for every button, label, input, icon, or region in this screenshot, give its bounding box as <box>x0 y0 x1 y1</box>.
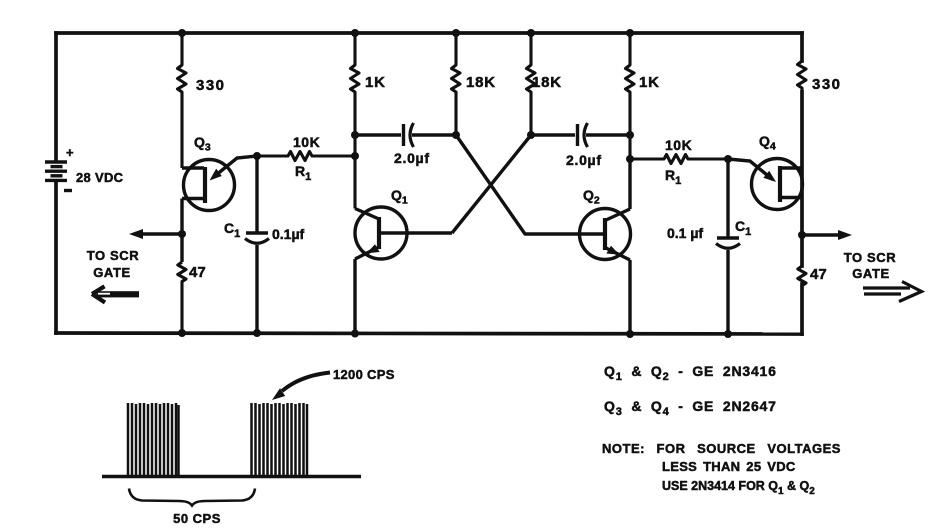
svg-text:Q1 & Q2 - GE 2N3416: Q1 & Q2 - GE 2N3416 <box>604 363 777 383</box>
transistor Q2 <box>580 159 631 334</box>
wire right rail lower <box>800 284 804 334</box>
resistor 18K (right) <box>527 33 536 135</box>
svg-text:LESS THAN 25 VDC: LESS THAN 25 VDC <box>662 459 796 474</box>
svg-text:Q2: Q2 <box>583 187 600 207</box>
svg-text:GATE: GATE <box>852 266 890 281</box>
svg-text:1K: 1K <box>365 74 386 91</box>
svg-text:330: 330 <box>812 76 842 93</box>
svg-text:Q3 & Q4 - GE 2N2647: Q3 & Q4 - GE 2N2647 <box>604 398 777 418</box>
node right output <box>798 231 806 239</box>
svg-text:R1: R1 <box>665 167 681 187</box>
resistor 1K (left) <box>351 33 360 209</box>
capacitor C1 0.1uf (left) <box>245 156 269 333</box>
brace 50 CPS span <box>129 489 255 506</box>
svg-text:C1: C1 <box>735 218 751 238</box>
svg-text:330: 330 <box>196 77 226 94</box>
arrow to SCR gate (right) <box>863 282 922 302</box>
svg-text:47: 47 <box>189 264 206 281</box>
waveform pulse burst 2 <box>252 403 308 477</box>
wire left rail upper <box>54 33 58 160</box>
svg-text:C1: C1 <box>224 220 240 240</box>
waveform pulse burst 1 <box>128 403 179 477</box>
svg-text:18K: 18K <box>466 74 496 91</box>
svg-text:+: + <box>66 145 74 160</box>
wire right rail upper <box>800 33 804 61</box>
svg-text:1K: 1K <box>639 74 660 91</box>
resistor 330 (right) <box>798 61 807 92</box>
node left output <box>178 230 186 238</box>
wire right rail mid <box>800 92 804 266</box>
svg-text:0.1 µf: 0.1 µf <box>667 225 703 241</box>
svg-text:R1: R1 <box>295 163 311 183</box>
svg-text:TO SCR: TO SCR <box>844 250 896 265</box>
wire cross-coupling Q2 base to 18K left <box>456 135 605 234</box>
svg-text:1200 CPS: 1200 CPS <box>333 367 395 382</box>
svg-text:Q1: Q1 <box>391 187 408 207</box>
wire left output arrow <box>141 232 182 235</box>
svg-text:GATE: GATE <box>93 265 131 280</box>
node A (Q3 emitter / R1 / C1) <box>253 152 261 160</box>
svg-text:TO SCR: TO SCR <box>87 248 139 263</box>
svg-text:Q3: Q3 <box>194 134 211 154</box>
resistor R1 10K (right) <box>630 155 728 164</box>
resistor 330 (left) <box>178 33 187 168</box>
svg-text:USE 2N3414 FOR Q1 & Q2: USE 2N3414 FOR Q1 & Q2 <box>662 479 815 497</box>
resistor 47 (right) <box>798 266 806 286</box>
svg-text:10K: 10K <box>665 137 692 153</box>
resistor 47 (left) <box>178 262 186 333</box>
node dots mid <box>351 131 359 139</box>
node dots top rail <box>178 29 186 37</box>
svg-text:0.1µf: 0.1µf <box>272 226 305 242</box>
wire Q3 B1 to output node <box>180 199 183 263</box>
node dots bottom rail <box>178 329 186 337</box>
capacitor 2.0uf (right) <box>531 123 630 147</box>
transistor Q1 <box>355 207 452 334</box>
svg-text:NOTE: FOR SOURCE VOLTAGES: NOTE: FOR SOURCE VOLTAGES <box>602 441 841 456</box>
capacitor 2.0uf (left) <box>355 123 456 147</box>
arrow to 1200 CPS <box>282 373 330 392</box>
waveform baseline <box>102 475 361 478</box>
wire right output arrow <box>802 233 838 236</box>
capacitor C1 0.1uf (right) <box>716 159 740 334</box>
resistor R1 10K (left) <box>257 152 355 161</box>
svg-text:18K: 18K <box>532 74 562 91</box>
svg-text:Q4: Q4 <box>759 133 776 153</box>
battery 28VDC <box>45 162 72 191</box>
arrow to SCR gate (left) <box>92 286 139 302</box>
wire left rail lower <box>54 182 58 333</box>
svg-text:47: 47 <box>810 266 827 283</box>
transistor Q4 (UJT) <box>728 159 803 210</box>
svg-text:2.0µf: 2.0µf <box>394 150 430 166</box>
resistor 1K (right) <box>626 33 635 159</box>
svg-text:2.0µf: 2.0µf <box>566 152 602 168</box>
svg-text:10K: 10K <box>293 134 320 150</box>
svg-text:28 VDC: 28 VDC <box>76 170 124 185</box>
wire cross-coupling Q1 base to 18K right <box>452 135 531 233</box>
transistor Q3 (UJT) <box>182 156 257 211</box>
wire top rail <box>56 31 802 35</box>
svg-text:50 CPS: 50 CPS <box>173 511 221 526</box>
wire bottom rail <box>56 333 802 334</box>
resistor 18K (left) <box>452 33 461 135</box>
